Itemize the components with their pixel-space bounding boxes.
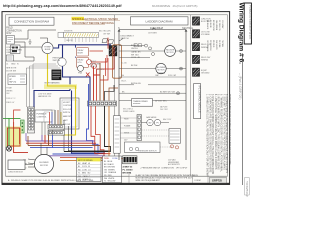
wire: red pair beside module <box>105 58 107 76</box>
wire: stub transformer top <box>47 38 49 42</box>
control box middle <box>60 98 79 129</box>
wire color code mini texts (rotated) <box>206 20 224 52</box>
svg-text:LADDER DIAGRAM: LADDER DIAGRAM <box>145 19 173 23</box>
relay box RLY2 <box>77 57 89 67</box>
svg-text:BR 0884: BR 0884 <box>123 171 132 174</box>
svg-text:DOOR SW: DOOR SW <box>6 70 16 72</box>
left mid text rows <box>6 87 16 104</box>
igniter pin ticks <box>65 37 97 42</box>
wire: red to strip left <box>94 66 101 101</box>
wire: black bend above strip <box>105 85 114 101</box>
svg-text:PL 115/60: PL 115/60 <box>123 169 134 171</box>
humidifier accessory note <box>168 158 181 166</box>
svg-text:HUM: HUM <box>124 118 129 120</box>
IFC CONTROL MODULE vertical box <box>194 84 201 119</box>
wire: black staircase <box>64 106 110 152</box>
dual pin header strips <box>48 125 65 130</box>
svg-text:RD RED: RD RED <box>212 40 214 48</box>
svg-text:SWITCH: SWITCH <box>121 38 129 40</box>
svg-text:SWITCH: SWITCH <box>63 112 71 114</box>
svg-text:OR WH: OR WH <box>103 33 111 35</box>
svg-text:BK HEAT HI: BK HEAT HI <box>78 162 90 165</box>
wire: yellow over control box <box>75 98 77 130</box>
ladder left rail N <box>118 30 120 161</box>
svg-text:RD LOW LO: RD LOW LO <box>78 169 91 171</box>
svg-text:HI LIMIT: HI LIMIT <box>63 102 71 104</box>
svg-text:3. USE COPPER CONDUCTORS ONLY: 3. USE COPPER CONDUCTORS ONLY FOR ALL TH… <box>211 94 214 174</box>
svg-text:2. COMPONENTS ARE SHOWN IN THE: 2. COMPONENTS ARE SHOWN IN THE DE-ENERGI… <box>208 94 211 173</box>
red switch circle 1 <box>87 60 92 65</box>
red switch circle 2 <box>92 64 97 69</box>
bold rows under connector <box>123 165 134 174</box>
wire: gray trio to left strip <box>25 68 27 107</box>
wire: navy over control box <box>71 98 73 130</box>
rung: inducer motor <box>119 50 165 52</box>
svg-text:BK BLACK: BK BLACK <box>206 20 209 30</box>
relay box RLY1 <box>77 48 89 56</box>
svg-text:4. LOW VOLTAGE TERMINALS ARE R: 4. LOW VOLTAGE TERMINALS ARE RATED 24VAC… <box>214 94 217 170</box>
wire: tan staircase <box>109 106 135 158</box>
notes paragraph bottom middle <box>136 174 199 182</box>
svg-text:TN TAN: TN TAN <box>221 40 224 47</box>
svg-text:CONNECTION: CONNECTION <box>6 30 22 32</box>
svg-text:4 WD7 03: 4 WD7 03 <box>123 165 134 168</box>
svg-text:BR BROWN: BR BROWN <box>212 20 214 31</box>
ladder right rail L1 <box>185 30 187 161</box>
svg-text:YL MED M2: YL MED M2 <box>78 173 90 175</box>
copper conductor note <box>6 47 22 54</box>
svg-text:BL BLUE: BL BLUE <box>209 20 211 28</box>
IFC tall box (ladder) <box>114 116 121 154</box>
svg-text:GAS VALVE: GAS VALVE <box>146 116 157 119</box>
svg-text:SENS: SENS <box>124 132 130 134</box>
mini text blob above strip <box>90 61 105 71</box>
legend item 5 <box>192 68 210 76</box>
svg-text:HTG: HTG <box>78 62 83 64</box>
flame sensor red box <box>7 128 20 146</box>
wire: bundle band horizontals <box>26 140 95 142</box>
wire: bundle drops from headers <box>41 135 43 141</box>
wire: pins above bundle <box>42 122 53 135</box>
svg-text:YL YELLOW: YL YELLOW <box>104 181 115 183</box>
svg-text:FURNACE: FURNACE <box>37 113 48 116</box>
svg-text:YL YELLOW: YL YELLOW <box>218 20 220 31</box>
svg-text:LOW VOLTAGE: LOW VOLTAGE <box>38 93 52 96</box>
svg-text:8. CONNECTION AND SCHEMATIC DI: 8. CONNECTION AND SCHEMATIC DIAGRAM NOTE… <box>225 94 228 173</box>
CONNECTION DIAGRAM title box <box>9 17 54 25</box>
svg-text:OR ORANGE: OR ORANGE <box>206 40 209 52</box>
wire: red network top <box>107 38 109 49</box>
svg-text:BK BLACK: BK BLACK <box>104 163 115 166</box>
wire: red staircase 2 <box>60 106 104 158</box>
svg-text:MAN RST: MAN RST <box>63 115 72 118</box>
wire: navy branch down <box>34 77 70 107</box>
speed-up tap box <box>8 74 27 85</box>
wire: brown bend above strip <box>109 88 118 101</box>
svg-text:WIRE: WIRE <box>104 158 110 160</box>
svg-text:BLOWER: BLOWER <box>39 162 49 164</box>
svg-text:TAP (S): TAP (S) <box>9 80 17 83</box>
svg-text:MOTOR SPEED: MOTOR SPEED <box>78 160 93 162</box>
rung: blower motor <box>119 68 156 70</box>
twin warning black block <box>52 70 62 81</box>
blower motor circle <box>34 154 53 173</box>
svg-text:B4 WH7 WT7 0M: B4 WH7 WT7 0M <box>160 91 175 93</box>
svg-text:EAC 115V: EAC 115V <box>163 118 172 121</box>
svg-text:CAPAC BR: CAPAC BR <box>131 51 141 54</box>
sidebar: vertical rule <box>242 55 244 185</box>
svg-text:SEE NOTE: SEE NOTE <box>6 68 17 70</box>
svg-text:PK PINK: PK PINK <box>218 40 220 48</box>
wire: navy right branch <box>75 45 77 58</box>
rung: capacitor line <box>119 76 186 78</box>
middle terminal strip TB <box>88 101 117 106</box>
small terminals below <box>170 145 173 148</box>
dashed interlock lines <box>142 129 170 131</box>
ladder lower terminal strip <box>137 115 141 141</box>
svg-text:6. TWINNING REQUIRES ACCESSORY: 6. TWINNING REQUIRES ACCESSORY KIT SEE I… <box>220 94 223 173</box>
ladder top rung <box>119 29 186 31</box>
motor stubs top to band <box>40 143 42 155</box>
svg-text:ACCESSORY: ACCESSORY <box>168 163 181 166</box>
svg-text:GN GREEN: GN GREEN <box>104 169 115 171</box>
wire: navy to pressure switch <box>62 45 64 58</box>
transformer box (ladder) <box>132 99 153 107</box>
svg-text:FIELD LV: FIELD LV <box>6 102 15 104</box>
svg-text:JUNCTION BOX: JUNCTION BOX <box>8 172 24 174</box>
svg-text:7. SEE UNIT RATING PLATE FOR T: 7. SEE UNIT RATING PLATE FOR THE PROPER … <box>222 94 225 170</box>
svg-text:5. REPLACE WIRE ONLY WITH 105C: 5. REPLACE WIRE ONLY WITH 105C TYPE EQUI… <box>217 94 220 170</box>
svg-text:BLMR: BLMR <box>45 49 51 51</box>
svg-text:TRANSFORMER: TRANSFORMER <box>133 100 148 103</box>
svg-text:GN/YEL: GN/YEL <box>131 48 138 50</box>
svg-text:GN-YL: GN-YL <box>121 80 127 82</box>
wire: red left vertical from top <box>14 110 21 122</box>
small slanted connectors <box>102 39 108 43</box>
svg-text:A WD-984-D NOAN PLTD 115/1: A WD-984-D NOAN PLTD 115/1/60 D-01-10 BL… <box>8 179 95 182</box>
wire: bundle drops left from green connector <box>25 133 27 141</box>
svg-text:FIELD: FIELD <box>6 28 13 30</box>
wire: black from disconnect to transformer <box>14 30 56 39</box>
rotated notes column <box>206 94 231 177</box>
svg-text:MOTOR: MOTOR <box>166 52 174 54</box>
svg-text:GND: GND <box>11 64 16 66</box>
svg-text:WIRING SUBJECT TO CHANGE REFER: WIRING SUBJECT TO CHANGE REFER TO UNIT D… <box>228 94 231 165</box>
svg-text:For Advanced Combustion Furnac: For Advanced Combustion Furnaces <box>248 6 251 40</box>
svg-text:WH BLK: WH BLK <box>131 54 140 56</box>
svg-text:GN/OR: GN/OR <box>66 40 73 42</box>
svg-text:RUN CAP: RUN CAP <box>168 74 177 77</box>
svg-text:VOLTAGE: VOLTAGE <box>201 33 210 36</box>
relay hatched K1 (dark) <box>109 46 117 57</box>
svg-text:TSTAT: TSTAT <box>6 87 13 90</box>
junction small box left <box>6 55 13 61</box>
IFC to strip links <box>120 118 137 138</box>
svg-text:RELAY: RELAY <box>78 59 85 62</box>
wire: black box corners left <box>64 120 110 152</box>
wire: green horizontal <box>3 117 21 119</box>
legend item 2 <box>192 30 210 38</box>
wire color legend table <box>103 156 122 183</box>
svg-text:GN GREEN: GN GREEN <box>215 20 217 31</box>
svg-text:BK WH: BK WH <box>131 65 138 67</box>
svg-text:BL 240: BL 240 <box>121 62 127 64</box>
svg-text:MU0K0R98VE 46-(Part # GRP725: MU0K0R98VE 46-(Part # GRP725) <box>152 4 197 8</box>
svg-text:MOTOR: MOTOR <box>40 165 48 167</box>
left column labels <box>6 64 19 73</box>
scanned page border <box>2 12 230 185</box>
humidifier box (ladder) <box>169 129 181 144</box>
svg-text:CODE: CODE <box>112 158 118 160</box>
legend item 3 <box>192 42 211 50</box>
footer row <box>6 175 129 177</box>
wire: navy main top run <box>53 45 111 48</box>
furnace control box <box>35 110 52 122</box>
rung: transformer feed <box>119 92 186 94</box>
pressure switch box (ladder) <box>125 142 161 153</box>
page bottom thick edge <box>2 183 230 185</box>
svg-text:http://d.pixloaing.angy-cap.co: http://d.pixloaing.angy-cap.com/document… <box>3 4 122 8</box>
svg-text:GRP725: GRP725 <box>212 179 223 183</box>
connection/ladder divider <box>114 15 116 176</box>
svg-text:Training Manual: Training Manual <box>246 181 249 197</box>
svg-text:BL BLUE: BL BLUE <box>104 161 113 163</box>
breaker block <box>11 45 21 54</box>
svg-text:115V: 115V <box>6 33 12 35</box>
svg-text:PRESSURE SWITCH: PRESSURE SWITCH <box>138 150 157 152</box>
svg-text:CONTROL: CONTROL <box>63 105 72 107</box>
green edge connector <box>21 120 25 133</box>
svg-text:R W G Y C: R W G Y C <box>6 98 16 100</box>
wire: breaker to transformer <box>20 46 42 48</box>
ladder/legend divider <box>190 15 192 176</box>
svg-text:BL COOL M: BL COOL M <box>78 166 90 168</box>
svg-text:CONNECTION DIAGRAM: CONNECTION DIAGRAM <box>14 20 50 24</box>
svg-text:GY GRAY: GY GRAY <box>221 20 224 29</box>
svg-text:WIRING: WIRING <box>201 60 209 62</box>
junction marks right rail <box>177 50 183 95</box>
wire: colored risers above headers <box>49 112 51 125</box>
svg-text:WIRE OR ITS EQUIVALENT: WIRE OR ITS EQUIVALENT <box>136 179 161 182</box>
svg-text:ST 2BTU: ST 2BTU <box>97 69 105 71</box>
wire: blue staircase <box>53 84 99 154</box>
flame igniter symbol <box>6 146 11 151</box>
igniter left terminal box <box>58 32 64 37</box>
motor stubs left <box>28 159 36 160</box>
legend item 4 <box>192 55 211 63</box>
svg-text:CONTROL: CONTROL <box>37 116 48 118</box>
field disconnect box <box>6 36 14 45</box>
svg-text:HARNESS 24V: HARNESS 24V <box>38 95 52 98</box>
wire: red to igniter box <box>14 122 28 153</box>
svg-text:BK/WH-GN: BK/WH-GN <box>131 83 141 85</box>
disconnect switch text <box>121 35 135 40</box>
svg-text:1. SYMBOLS ARE ELECTRICAL REPR: 1. SYMBOLS ARE ELECTRICAL REPRESENTATION… <box>206 94 209 177</box>
left connector strip (vertical pins) <box>28 107 35 133</box>
wire: red staircase 1 <box>91 106 111 154</box>
svg-text:WH WHITE: WH WHITE <box>104 178 115 180</box>
wire: navy L from switch to strip <box>63 66 91 100</box>
speed table box (yellow header) <box>77 158 102 182</box>
wire: green vertical to igniter <box>8 118 10 146</box>
LADDER DIAGRAM title box <box>131 17 189 25</box>
svg-text:RELAY: RELAY <box>78 49 85 52</box>
svg-text:BR BROWN: BR BROWN <box>104 167 116 169</box>
wire: purple bottom run <box>42 155 105 157</box>
svg-text:WIRES: WIRES <box>6 90 13 92</box>
svg-text:– (Part # GRP725): – (Part # GRP725) <box>238 73 242 99</box>
legend item 1 <box>192 17 211 25</box>
svg-text:PR PURPLE: PR PURPLE <box>209 40 211 51</box>
wire: yellow from transformer <box>48 54 76 135</box>
pressure tap circle PSA <box>78 65 84 71</box>
svg-text:WH WHITE: WH WHITE <box>215 40 217 51</box>
gas valve circles <box>147 119 153 125</box>
svg-text:MOTOR: MOTOR <box>157 69 165 71</box>
svg-text:Wiring Diagram # 6.: Wiring Diagram # 6. <box>238 3 245 65</box>
highlight band mid-left <box>44 84 77 89</box>
wire: brown verticals <box>99 63 101 101</box>
junction box <box>8 160 25 170</box>
svg-text:SWITCH: SWITCH <box>90 66 98 68</box>
sidebar: advanced furnace box <box>244 3 251 44</box>
ground symbol <box>28 39 31 44</box>
green highlight zone <box>6 127 21 148</box>
wire: navy long staircase <box>72 91 106 154</box>
svg-text:FLAME: FLAME <box>124 124 131 127</box>
inner diagram frame <box>6 15 228 176</box>
svg-text:IGNITER: IGNITER <box>64 30 73 32</box>
svg-text:FORM: FORM <box>195 180 201 182</box>
svg-text:ONLY: ONLY <box>6 52 12 54</box>
svg-text:GROUND: GROUND <box>201 72 210 74</box>
svg-text:XFMR LEADS: XFMR LEADS <box>123 110 135 113</box>
rung: small labels <box>119 84 134 86</box>
svg-text:BLWR: BLWR <box>78 52 84 54</box>
wire: red bottom run to ladder <box>96 158 135 160</box>
igniter strip component <box>64 32 99 37</box>
transformer TRNS circle <box>42 42 53 53</box>
svg-text:OR ORANGE: OR ORANGE <box>104 171 117 174</box>
svg-text:+ PRESSURE SWITCH CONNECTION: + PRESSURE SWITCH CONNECTION JFT OUTPUT <box>140 168 188 170</box>
chassis connector block <box>123 156 138 164</box>
svg-text:BLWR HARNESS: BLWR HARNESS <box>45 82 61 85</box>
svg-text:3A FUSE: 3A FUSE <box>160 105 168 108</box>
pressure switch circle PS <box>58 58 66 66</box>
svg-text:CKT BKR: CKT BKR <box>148 32 157 34</box>
svg-text:BK-YEL/-BR: BK-YEL/-BR <box>99 31 111 33</box>
svg-text:IFC CONTROL MODULE: IFC CONTROL MODULE <box>198 86 201 113</box>
field connection label text <box>6 28 22 36</box>
tall brown module box <box>113 45 122 78</box>
svg-text:24V CIRC: 24V CIRC <box>160 109 169 111</box>
wire: red cross junction <box>86 73 90 77</box>
shock hazard note (yellow highlight) <box>72 17 85 21</box>
svg-text:SWITCH: SWITCH <box>53 60 61 62</box>
